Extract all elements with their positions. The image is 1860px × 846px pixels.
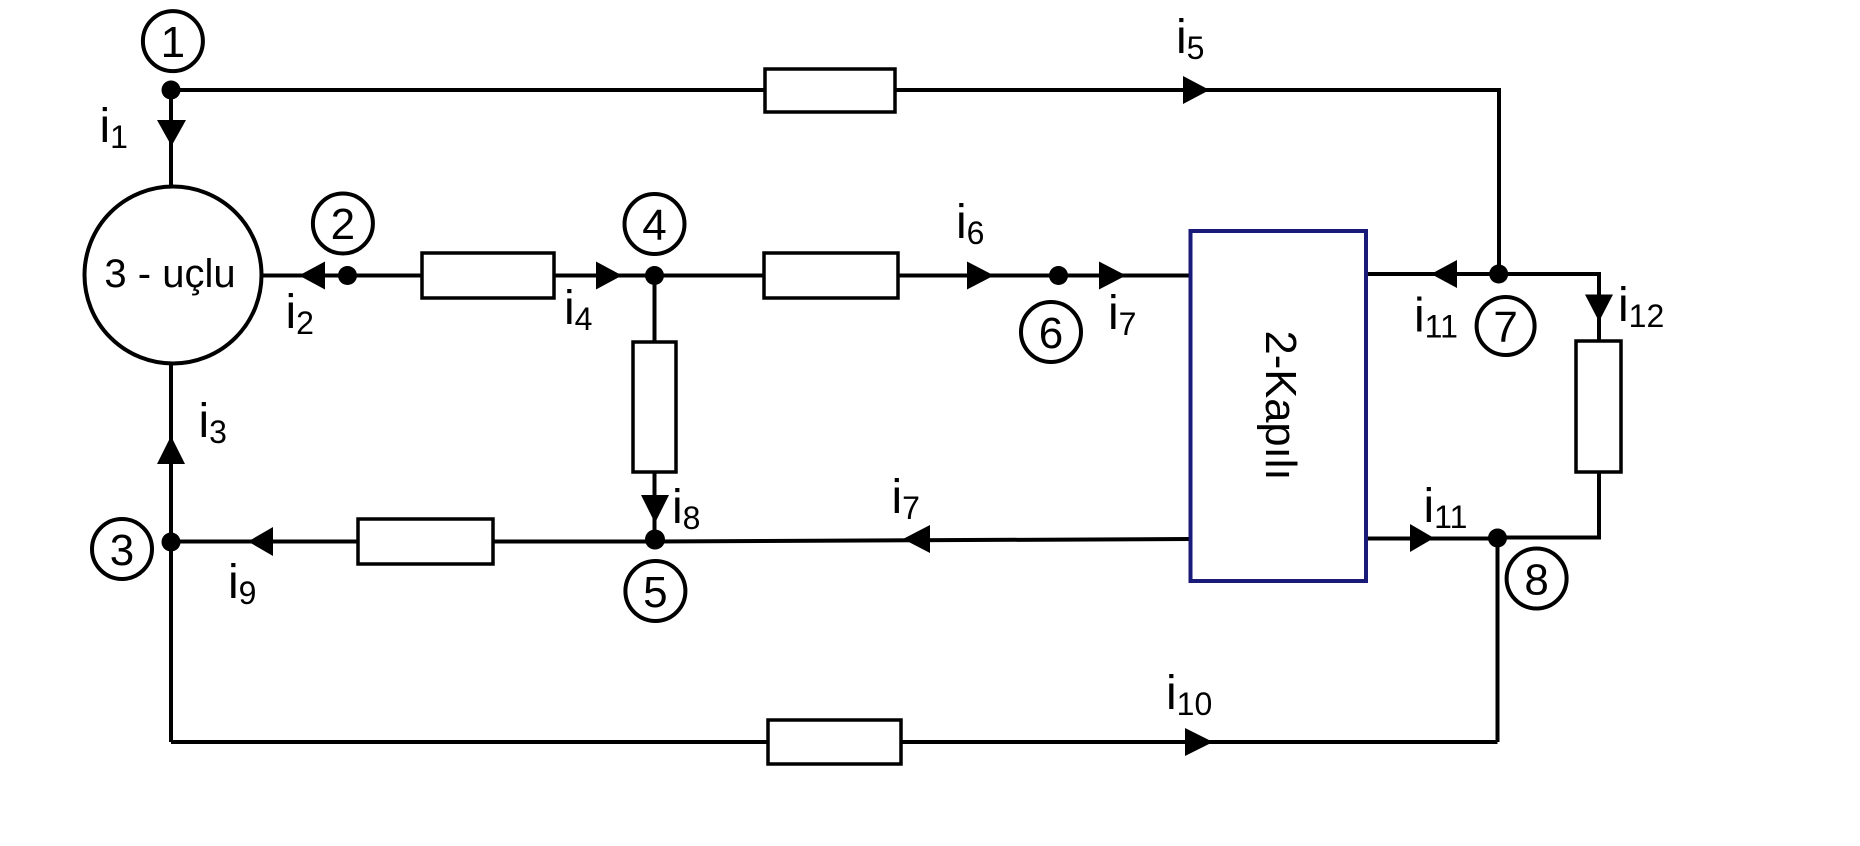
current arrow i9 (left)	[248, 527, 273, 556]
current arrow i2 (left)	[299, 262, 325, 290]
svg-text:2: 2	[331, 200, 355, 249]
wire node1 down to 3-uclu top	[169, 90, 173, 187]
current arrow i4 (right)	[596, 262, 622, 290]
current arrow i5 (right)	[1183, 76, 1210, 104]
resistor between node 2 and node 4	[422, 253, 554, 298]
wire node8 down to bottom wire	[1496, 538, 1500, 742]
current arrow i6 (right)	[967, 262, 994, 290]
current arrow i12 (down)	[1585, 295, 1613, 322]
junction dot node 2	[338, 266, 357, 285]
node 4	[625, 194, 685, 254]
svg-text:2-Kapılı: 2-Kapılı	[1256, 331, 1304, 481]
resistor vertical right branch node7-node8	[1576, 341, 1621, 472]
node 7	[1477, 297, 1535, 355]
node 2	[313, 194, 373, 254]
junction dot node 1	[162, 81, 181, 100]
node 3	[92, 519, 152, 579]
wire node1 to top-right corner down to node 7	[171, 90, 1499, 274]
resistor vertical between node 4 and node 5	[633, 342, 676, 472]
svg-text:5: 5	[643, 568, 667, 617]
svg-text:3: 3	[110, 526, 134, 575]
current arrow i7 bottom (left)	[903, 525, 930, 553]
node 1	[143, 11, 203, 71]
wire 3-uclu right to 2-port left (through node 2, node 4, node 6)	[261, 274, 1190, 278]
3-terminal device (3 - uclu)	[85, 187, 262, 364]
svg-text:7: 7	[1493, 303, 1517, 352]
current arrow i11 bottom (right)	[1410, 524, 1434, 552]
current arrow i11 top (left)	[1431, 260, 1457, 288]
svg-text:8: 8	[1524, 556, 1548, 605]
wire node3 right to 2-port left bottom (through node 5)	[171, 539, 1190, 542]
wire right resistor bottom to node 8	[1498, 472, 1600, 538]
junction dot node 7	[1489, 265, 1508, 284]
node 5	[625, 561, 685, 621]
node 8	[1507, 549, 1567, 609]
resistor between node 4 and node 6	[764, 253, 898, 298]
resistor between node 3 and node 5	[358, 519, 493, 564]
current arrow i7 top (right)	[1099, 262, 1126, 290]
wire node4 down to node5	[653, 276, 657, 540]
junction dot node 8	[1488, 529, 1507, 548]
svg-text:3 - uçlu: 3 - uçlu	[104, 252, 235, 296]
wire 2-port bottom right to node 8	[1366, 537, 1498, 541]
junction dot node 5	[645, 530, 665, 550]
bottom return wire	[171, 740, 1498, 744]
wire 2-port right to node 7 and right branch down	[1366, 274, 1599, 341]
wire left vertical bottom corner up through node3 to 3-uclu bottom	[169, 364, 173, 742]
resistor bottom branch	[768, 720, 901, 764]
junction dot node 3	[162, 533, 181, 552]
2-port network (2-Kapili)	[1191, 231, 1367, 581]
junction dot node 6	[1049, 266, 1068, 285]
current arrow i3 (up)	[157, 436, 185, 464]
svg-text:6: 6	[1039, 309, 1063, 358]
current arrow i10 (right)	[1185, 728, 1213, 756]
junction dot node 4	[645, 266, 664, 285]
node 6	[1021, 302, 1081, 362]
current arrow i1 (down)	[157, 120, 186, 146]
svg-text:4: 4	[642, 201, 666, 250]
current arrow i8 (down)	[641, 495, 669, 523]
resistor top branch	[765, 69, 895, 112]
svg-text:1: 1	[161, 18, 185, 67]
